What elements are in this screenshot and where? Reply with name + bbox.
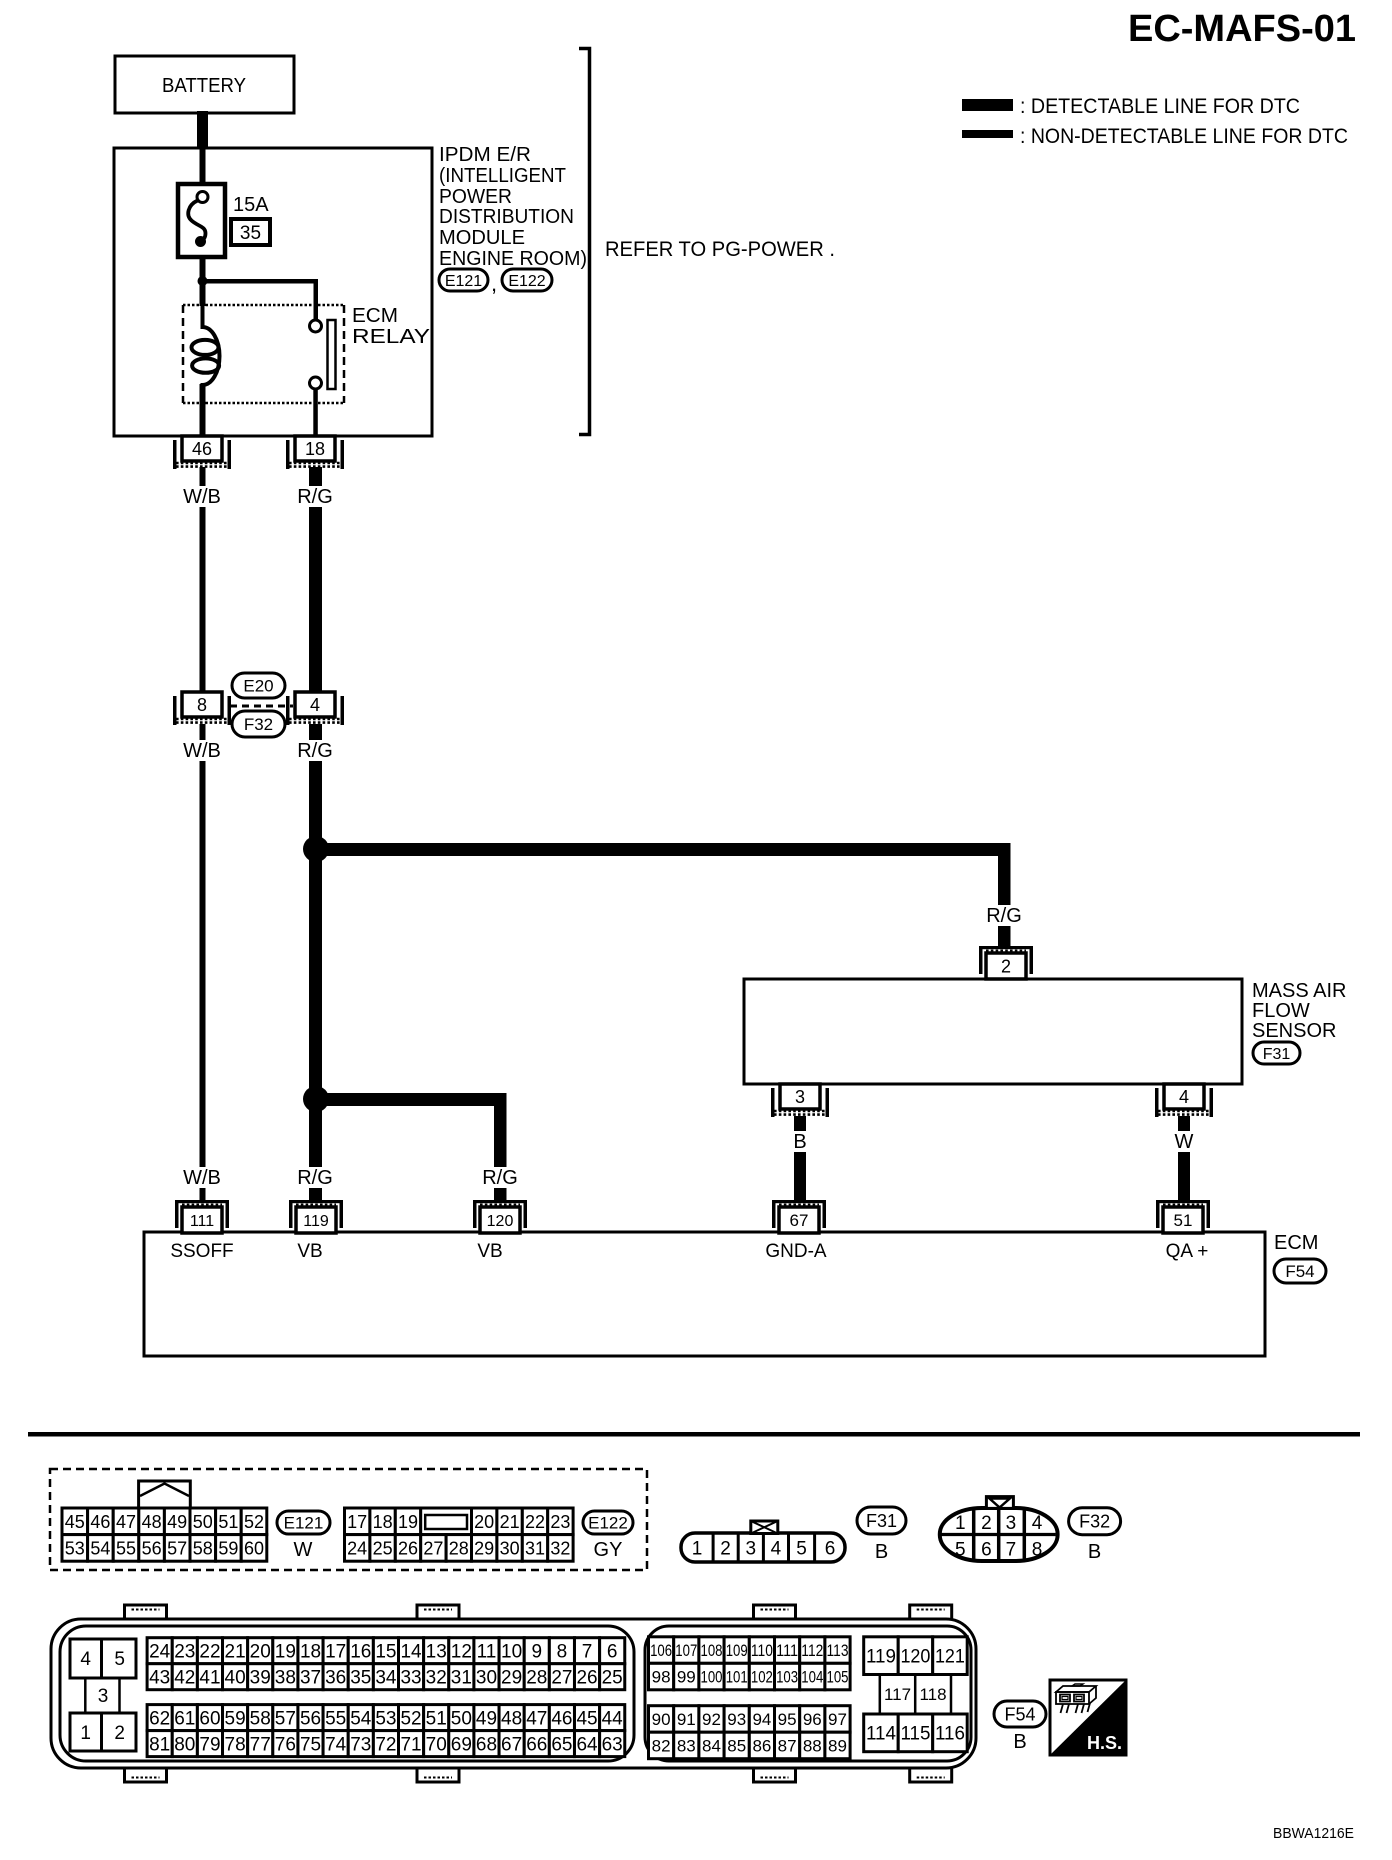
- svg-text:48: 48: [501, 1708, 522, 1729]
- svg-text:E121: E121: [284, 1514, 324, 1533]
- svg-text:70: 70: [426, 1734, 447, 1755]
- svg-text:23: 23: [550, 1512, 570, 1532]
- svg-text:28: 28: [449, 1538, 469, 1558]
- svg-text:60: 60: [244, 1538, 264, 1558]
- svg-text:23: 23: [174, 1642, 195, 1663]
- svg-text:47: 47: [526, 1708, 547, 1729]
- svg-text:58: 58: [193, 1538, 213, 1558]
- svg-text:73: 73: [350, 1734, 371, 1755]
- svg-text:R/G: R/G: [986, 905, 1022, 927]
- F54 left pin group 4/5/3/1/2: [70, 1639, 102, 1678]
- svg-text:57: 57: [167, 1538, 187, 1558]
- svg-text:97: 97: [828, 1710, 847, 1729]
- wire R/G long run to ECM 119 (thick): [309, 724, 322, 1202]
- svg-text:46: 46: [192, 439, 212, 459]
- F54 grid 24-6 / 43-25: [147, 1638, 172, 1664]
- svg-text:1: 1: [955, 1513, 966, 1534]
- svg-text:12: 12: [451, 1642, 472, 1663]
- svg-text:117: 117: [884, 1685, 911, 1704]
- svg-text:50: 50: [193, 1512, 213, 1532]
- svg-text:121: 121: [935, 1646, 965, 1667]
- svg-text:86: 86: [752, 1737, 771, 1756]
- svg-text:35: 35: [350, 1668, 371, 1689]
- svg-text:93: 93: [727, 1710, 746, 1729]
- svg-text:84: 84: [702, 1737, 721, 1756]
- svg-text:3: 3: [1006, 1513, 1017, 1534]
- svg-text:4: 4: [310, 695, 320, 715]
- svg-text:1: 1: [692, 1539, 703, 1560]
- legend detectable line bar: [962, 99, 1013, 111]
- svg-text:POWER: POWER: [439, 186, 512, 208]
- oval F54 view label: [994, 1701, 1046, 1727]
- svg-text:17: 17: [347, 1512, 367, 1532]
- svg-text:2: 2: [981, 1513, 992, 1534]
- svg-text:7: 7: [582, 1642, 593, 1663]
- svg-text:60: 60: [199, 1708, 220, 1729]
- svg-text:110: 110: [751, 1641, 773, 1660]
- svg-text:54: 54: [90, 1538, 110, 1558]
- svg-text:F54: F54: [1004, 1704, 1035, 1724]
- wire junction to relay switch (horizontal): [200, 279, 318, 284]
- fuse symbol: [197, 192, 208, 203]
- svg-text:68: 68: [476, 1734, 497, 1755]
- svg-text:27: 27: [551, 1668, 572, 1689]
- oval F32 view label: [1069, 1508, 1121, 1535]
- svg-text:102: 102: [751, 1668, 773, 1687]
- svg-text:ENGINE ROOM): ENGINE ROOM): [439, 248, 587, 270]
- svg-text:24: 24: [347, 1538, 367, 1558]
- svg-text:6: 6: [981, 1540, 992, 1561]
- svg-text:50: 50: [451, 1708, 472, 1729]
- svg-text:53: 53: [375, 1708, 396, 1729]
- svg-text:66: 66: [526, 1734, 547, 1755]
- svg-text:5: 5: [796, 1539, 807, 1560]
- fuse 15A box: [178, 184, 225, 257]
- svg-text:6: 6: [607, 1642, 618, 1663]
- svg-text:8: 8: [1032, 1540, 1043, 1561]
- connector 4 on MAF: [1164, 1084, 1204, 1109]
- connector 3 on MAF: [780, 1084, 820, 1109]
- svg-text:59: 59: [218, 1538, 238, 1558]
- svg-text:GND-A: GND-A: [765, 1241, 827, 1262]
- svg-text:F31: F31: [1263, 1046, 1291, 1063]
- svg-text:49: 49: [476, 1708, 497, 1729]
- svg-text:39: 39: [250, 1668, 271, 1689]
- relay switch contacts: [310, 320, 322, 332]
- svg-text:100: 100: [701, 1668, 723, 1687]
- label W/B: [176, 486, 228, 507]
- H.S. connector glyph: [1056, 1684, 1096, 1713]
- wire relay switch to connector 18: [313, 389, 318, 436]
- svg-text:2: 2: [114, 1723, 125, 1744]
- svg-text:37: 37: [300, 1668, 321, 1689]
- svg-text:51: 51: [426, 1708, 447, 1729]
- svg-text:6: 6: [825, 1539, 836, 1560]
- bracket refer to pg-power: [579, 49, 590, 435]
- branch wire down to ECM 120: [494, 1093, 507, 1203]
- svg-text:EC-MAFS-01: EC-MAFS-01: [1128, 8, 1356, 50]
- svg-text:: DETECTABLE LINE FOR DTC: : DETECTABLE LINE FOR DTC: [1020, 95, 1300, 118]
- label W/B above ECM 111: [176, 1167, 228, 1188]
- F54 block 117-118: [879, 1675, 882, 1715]
- svg-text:W/B: W/B: [183, 486, 221, 508]
- svg-text:46: 46: [90, 1512, 110, 1532]
- svg-text:14: 14: [400, 1642, 422, 1663]
- H.S. hand symbol box: [1050, 1680, 1126, 1755]
- svg-text:19: 19: [398, 1512, 418, 1532]
- svg-text:40: 40: [225, 1668, 246, 1689]
- svg-text:120: 120: [900, 1646, 930, 1667]
- junction dot 1: [303, 836, 329, 862]
- svg-text:46: 46: [551, 1708, 572, 1729]
- svg-text:43: 43: [149, 1668, 170, 1689]
- wire junction down to relay coil: [200, 281, 206, 306]
- branch wire down to MAF pin 2: [998, 843, 1011, 947]
- svg-text:79: 79: [199, 1734, 220, 1755]
- svg-text:B: B: [1088, 1541, 1101, 1563]
- svg-text:H.S.: H.S.: [1087, 1733, 1122, 1753]
- label R/G above ECM 120: [474, 1167, 526, 1188]
- svg-text:76: 76: [275, 1734, 296, 1755]
- svg-text:REFER TO PG-POWER .: REFER TO PG-POWER .: [605, 238, 835, 261]
- svg-text:5: 5: [114, 1649, 125, 1670]
- connector 2 on MAF: [979, 946, 1033, 949]
- svg-text:BBWA1216E: BBWA1216E: [1273, 1825, 1354, 1842]
- svg-text:R/G: R/G: [482, 1167, 518, 1189]
- wire fuse to junction: [200, 255, 206, 281]
- svg-text:E20: E20: [243, 677, 273, 696]
- svg-text:10: 10: [501, 1642, 522, 1663]
- svg-text:116: 116: [935, 1724, 965, 1745]
- svg-text:71: 71: [400, 1734, 421, 1755]
- svg-text:96: 96: [803, 1710, 822, 1729]
- svg-text:111: 111: [190, 1213, 214, 1230]
- svg-text:119: 119: [303, 1213, 329, 1230]
- E121 key notch: [139, 1481, 191, 1508]
- svg-text:MASS AIR: MASS AIR: [1252, 980, 1346, 1002]
- svg-text:42: 42: [174, 1668, 195, 1689]
- svg-text:19: 19: [275, 1642, 296, 1663]
- legend non-detectable line bar: [962, 130, 1013, 138]
- svg-text:22: 22: [525, 1512, 545, 1532]
- svg-text:108: 108: [701, 1641, 723, 1660]
- svg-text:34: 34: [375, 1668, 397, 1689]
- svg-text:30: 30: [500, 1538, 520, 1558]
- svg-text:32: 32: [426, 1668, 447, 1689]
- oval E122 view label: [583, 1511, 633, 1534]
- oval F31 view label: [857, 1507, 906, 1534]
- svg-text:: NON-DETECTABLE LINE FOR DTC: : NON-DETECTABLE LINE FOR DTC: [1020, 125, 1348, 148]
- svg-text:72: 72: [375, 1734, 396, 1755]
- svg-text:45: 45: [65, 1512, 85, 1532]
- svg-text:103: 103: [776, 1668, 798, 1687]
- svg-text:QA +: QA +: [1166, 1241, 1209, 1262]
- svg-text:29: 29: [501, 1668, 522, 1689]
- connector oval E122: [502, 269, 552, 291]
- svg-text:113: 113: [827, 1641, 849, 1660]
- svg-text:W/B: W/B: [183, 740, 221, 762]
- svg-text:F54: F54: [1285, 1262, 1314, 1281]
- wire W/B long run to ECM 111 (thin): [200, 724, 206, 1202]
- svg-text:30: 30: [476, 1668, 497, 1689]
- separator line: [28, 1432, 1360, 1437]
- svg-text:11: 11: [477, 1642, 497, 1663]
- svg-text:B: B: [1013, 1731, 1026, 1753]
- svg-text:104: 104: [801, 1668, 823, 1687]
- svg-text:57: 57: [275, 1708, 296, 1729]
- svg-text:114: 114: [866, 1724, 896, 1745]
- svg-text:56: 56: [300, 1708, 321, 1729]
- fuse number 35 box: [231, 219, 270, 245]
- svg-text:28: 28: [526, 1668, 547, 1689]
- svg-text:92: 92: [702, 1710, 721, 1729]
- svg-text:31: 31: [525, 1538, 545, 1558]
- connector 120: [473, 1200, 527, 1203]
- svg-text:24: 24: [149, 1642, 171, 1663]
- svg-text:4: 4: [80, 1649, 91, 1670]
- F31 connector view: [681, 1533, 845, 1562]
- svg-text:25: 25: [602, 1668, 623, 1689]
- svg-text:R/G: R/G: [297, 1167, 333, 1189]
- svg-text:1: 1: [80, 1723, 91, 1744]
- wire battery to IPDM (thick): [197, 111, 208, 150]
- svg-text:SENSOR: SENSOR: [1252, 1020, 1336, 1042]
- svg-text:4: 4: [1032, 1513, 1043, 1534]
- connector 111: [175, 1200, 229, 1203]
- svg-text:109: 109: [726, 1641, 748, 1660]
- label B: [774, 1131, 826, 1152]
- svg-text:78: 78: [225, 1734, 246, 1755]
- svg-text:82: 82: [652, 1737, 671, 1756]
- svg-text:58: 58: [250, 1708, 271, 1729]
- svg-text:112: 112: [801, 1641, 823, 1660]
- svg-text:R/G: R/G: [297, 486, 333, 508]
- svg-text:15A: 15A: [233, 194, 269, 216]
- svg-text:41: 41: [199, 1668, 220, 1689]
- svg-text:89: 89: [828, 1737, 847, 1756]
- svg-text:9: 9: [531, 1642, 542, 1663]
- junction dot in IPDM: [198, 276, 208, 286]
- wire down to relay switch: [314, 279, 319, 322]
- svg-text:26: 26: [576, 1668, 597, 1689]
- junction dot 2: [303, 1086, 329, 1112]
- svg-text:E122: E122: [508, 273, 545, 290]
- wire coil to connector 46: [200, 384, 206, 436]
- svg-text:E121: E121: [445, 273, 482, 290]
- ECM F54 connector shell: [125, 1605, 167, 1620]
- connector 4: [295, 692, 335, 717]
- svg-text:56: 56: [142, 1538, 162, 1558]
- svg-text:(INTELLIGENT: (INTELLIGENT: [439, 165, 566, 187]
- wire R/G from 18 to 4 (thick): [309, 467, 322, 695]
- svg-text:4: 4: [1179, 1087, 1189, 1107]
- svg-text:47: 47: [116, 1512, 136, 1532]
- svg-text:W: W: [1175, 1131, 1194, 1153]
- svg-text:3: 3: [746, 1539, 757, 1560]
- F32 key: [986, 1497, 1013, 1509]
- svg-text:B: B: [793, 1131, 806, 1153]
- svg-text:16: 16: [350, 1642, 371, 1663]
- svg-text:2: 2: [1001, 956, 1011, 976]
- svg-text:99: 99: [677, 1668, 696, 1687]
- label R/G at MAF pin2: [978, 905, 1030, 926]
- svg-text:4: 4: [771, 1539, 782, 1560]
- svg-text:F32: F32: [244, 715, 273, 734]
- svg-text:IPDM E/R: IPDM E/R: [439, 144, 531, 166]
- svg-text:18: 18: [373, 1512, 393, 1532]
- svg-text:64: 64: [576, 1734, 598, 1755]
- svg-text:20: 20: [250, 1642, 271, 1663]
- svg-text:61: 61: [174, 1708, 195, 1729]
- svg-text:GY: GY: [594, 1539, 623, 1561]
- svg-text:118: 118: [919, 1685, 946, 1704]
- svg-text:105: 105: [827, 1668, 849, 1687]
- svg-text:W/B: W/B: [183, 1167, 221, 1189]
- svg-text:53: 53: [65, 1538, 85, 1558]
- svg-text:SSOFF: SSOFF: [170, 1241, 233, 1262]
- wire W/B from 46 to 8 (thin): [200, 467, 206, 695]
- F54 grid 62-44 / 81-63: [147, 1705, 172, 1731]
- svg-text:22: 22: [199, 1642, 220, 1663]
- svg-text:67: 67: [501, 1734, 522, 1755]
- svg-text:101: 101: [726, 1668, 748, 1687]
- F54 block 119-121: [864, 1637, 899, 1675]
- svg-text:38: 38: [275, 1668, 296, 1689]
- connector 119: [289, 1200, 343, 1203]
- svg-text:DISTRIBUTION: DISTRIBUTION: [439, 206, 574, 228]
- svg-text:FLOW: FLOW: [1252, 1000, 1310, 1022]
- svg-text:75: 75: [300, 1734, 321, 1755]
- svg-text:18: 18: [300, 1642, 321, 1663]
- svg-text:7: 7: [1006, 1540, 1017, 1561]
- label R/G above ECM 119: [289, 1167, 341, 1188]
- connector 8 with E20/F32: [182, 692, 222, 717]
- svg-text:51: 51: [218, 1512, 238, 1532]
- svg-text:3: 3: [98, 1686, 109, 1707]
- svg-text:E122: E122: [588, 1514, 628, 1533]
- svg-text:B: B: [875, 1541, 888, 1563]
- oval F54: [1274, 1259, 1326, 1283]
- svg-text:33: 33: [400, 1668, 421, 1689]
- svg-text:49: 49: [167, 1512, 187, 1532]
- connector 46 on IPDM: [182, 436, 222, 461]
- oval F31: [1253, 1042, 1300, 1064]
- svg-text:5: 5: [955, 1540, 966, 1561]
- svg-text:77: 77: [250, 1734, 271, 1755]
- svg-text:83: 83: [677, 1737, 696, 1756]
- wire W from MAF 4 to ECM 51 (thick): [1178, 1116, 1190, 1203]
- E122 connector grid: [345, 1508, 370, 1535]
- wire B from MAF 3 to ECM 67 (thick): [794, 1116, 806, 1203]
- F54 grid 106-113 / 98-105: [649, 1637, 674, 1664]
- svg-text:27: 27: [423, 1538, 443, 1558]
- F54 grid 90-97 / 82-89: [649, 1706, 674, 1733]
- F54 block 114-116: [864, 1714, 899, 1752]
- svg-text:F32: F32: [1079, 1512, 1110, 1532]
- svg-text:21: 21: [500, 1512, 520, 1532]
- svg-text:VB: VB: [297, 1241, 322, 1262]
- svg-text:31: 31: [451, 1668, 472, 1689]
- svg-text:65: 65: [551, 1734, 572, 1755]
- svg-text:87: 87: [778, 1737, 797, 1756]
- svg-text:R/G: R/G: [297, 740, 333, 762]
- ECM relay dashed box: [183, 304, 344, 307]
- oval F32: [232, 711, 285, 737]
- svg-text:15: 15: [375, 1642, 396, 1663]
- svg-text:120: 120: [487, 1213, 514, 1230]
- connector oval E121: [439, 269, 488, 291]
- label W/B below 8: [176, 740, 228, 761]
- svg-text:85: 85: [727, 1737, 746, 1756]
- svg-text:48: 48: [142, 1512, 162, 1532]
- svg-text:BATTERY: BATTERY: [162, 75, 246, 97]
- svg-text:52: 52: [244, 1512, 264, 1532]
- svg-text:RELAY: RELAY: [352, 326, 430, 348]
- branch wire to MAF pin 2 (horizontal thick): [316, 843, 1010, 856]
- battery box: [115, 56, 294, 113]
- IPDM E/R box: [114, 148, 432, 436]
- connector 51: [1156, 1200, 1210, 1203]
- svg-text:69: 69: [451, 1734, 472, 1755]
- dashed link between connectors: [230, 705, 293, 708]
- dashed box around E121/E122 views: [50, 1469, 647, 1570]
- svg-text:MODULE: MODULE: [439, 227, 525, 249]
- svg-text:55: 55: [325, 1708, 346, 1729]
- F31 key: [751, 1521, 778, 1534]
- MASS AIR FLOW SENSOR box: [744, 979, 1242, 1084]
- svg-text:44: 44: [602, 1708, 624, 1729]
- svg-text:74: 74: [325, 1734, 347, 1755]
- svg-text:F31: F31: [866, 1511, 897, 1531]
- svg-text:63: 63: [602, 1734, 623, 1755]
- svg-text:55: 55: [116, 1538, 136, 1558]
- svg-text:119: 119: [866, 1646, 896, 1667]
- svg-text:107: 107: [675, 1641, 697, 1660]
- svg-text:29: 29: [474, 1538, 494, 1558]
- svg-text:36: 36: [325, 1668, 346, 1689]
- svg-text:88: 88: [803, 1737, 822, 1756]
- svg-text:26: 26: [398, 1538, 418, 1558]
- svg-text:54: 54: [350, 1708, 372, 1729]
- svg-text:80: 80: [174, 1734, 195, 1755]
- E121 connector grid: [62, 1508, 88, 1535]
- svg-text:32: 32: [550, 1538, 570, 1558]
- label R/G: [289, 486, 341, 507]
- svg-text:59: 59: [225, 1708, 246, 1729]
- svg-text:ECM: ECM: [1274, 1232, 1318, 1254]
- wire battery into fuse (thin): [200, 149, 206, 193]
- svg-text:51: 51: [1174, 1211, 1193, 1230]
- svg-text:VB: VB: [477, 1241, 502, 1262]
- oval E20: [232, 673, 285, 698]
- svg-text:21: 21: [225, 1642, 246, 1663]
- svg-text:25: 25: [373, 1538, 393, 1558]
- svg-text:17: 17: [325, 1642, 346, 1663]
- svg-text:94: 94: [752, 1710, 771, 1729]
- svg-text:ECM: ECM: [352, 305, 398, 327]
- svg-text:91: 91: [677, 1710, 696, 1729]
- svg-text:52: 52: [400, 1708, 421, 1729]
- connector 67: [772, 1200, 826, 1203]
- svg-text:95: 95: [778, 1710, 797, 1729]
- svg-text:81: 81: [149, 1734, 170, 1755]
- oval E121 view label: [277, 1511, 330, 1534]
- relay coil: [203, 306, 220, 390]
- svg-text:,: ,: [491, 271, 497, 296]
- branch wire to ECM 120 (horizontal thick): [316, 1093, 500, 1106]
- svg-text:35: 35: [240, 223, 261, 244]
- ECM box: [144, 1232, 1265, 1356]
